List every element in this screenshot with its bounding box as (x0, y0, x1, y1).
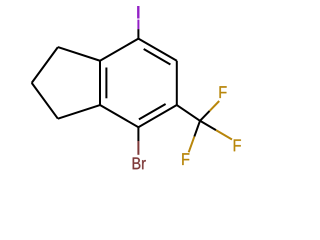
bond C5 to CF3 carbon (177, 105, 200, 121)
bond C4 to Br : black half (137, 127, 139, 141)
bond C1 to I : iodine-colored half (137, 20, 139, 30)
chemical structure: 4-bromo-7-iodo-5-(trifluoromethyl)-2,3-dihydro-1H-indene (0, 0, 300, 176)
atom label F2 (fluorine bottom-left) (182, 153, 189, 165)
bond V5-V6 (176, 61, 178, 105)
atom label I (iodine) (138, 6, 140, 18)
atom label Br (bromine) (133, 158, 146, 170)
bond V3-V4 (100, 105, 138, 127)
bond V2-V3 (99, 61, 101, 105)
double bond inner line V2-V3 (105, 68, 107, 99)
bond C(F3) to F2 : fluorine-colored half (189, 137, 195, 153)
bond C(F3) to F3 : black half (200, 121, 216, 130)
bond C(F3) to F2 : black half (194, 121, 200, 137)
bond V6-V1 (138, 39, 176, 61)
double bond inner line V6-V1 (144, 49, 171, 64)
bond C(F3) to F1 : fluorine-colored half (210, 101, 220, 111)
atom label F3 (fluorine bottom-right) (234, 139, 241, 151)
fused cyclopentane ring: bond V2-P1 (58, 47, 100, 61)
atom label F1 (fluorine top) (220, 86, 227, 98)
bond P2-P3 (32, 83, 58, 119)
double bond inner line V4-V5 (139, 104, 166, 119)
bond P3-V3 (58, 105, 100, 119)
bond P1-P2 (32, 47, 58, 83)
bond C4 to Br : bromine-colored half (137, 141, 139, 155)
bond C1 to I : black half (137, 29, 139, 38)
bond C(F3) to F3 : fluorine-colored half (216, 130, 232, 139)
bond C(F3) to F1 : black half (200, 111, 210, 121)
bond V1-V2 (100, 39, 138, 61)
bond V4-V5 (138, 105, 176, 127)
